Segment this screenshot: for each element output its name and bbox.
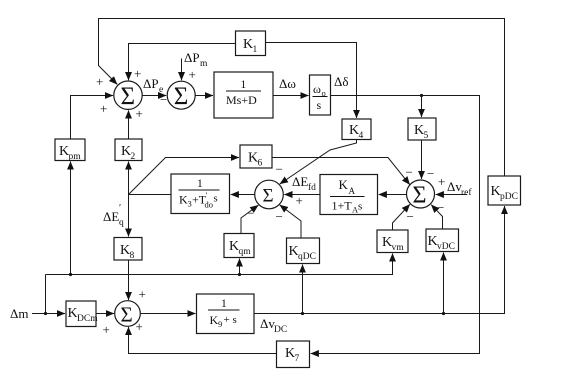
wire K4 output diagonal to S-field xyxy=(280,140,357,185)
wire delta-vDC bus to KpDC xyxy=(254,206,505,314)
wire K5 output to S-exc top xyxy=(421,140,423,179)
wire KvDC output to S-exc xyxy=(431,205,442,229)
wire vdc branch to KvDC xyxy=(443,253,445,314)
wire delta-m riser to bus xyxy=(45,275,47,314)
wire delta-delta branch to K5 xyxy=(421,96,423,118)
svg-text:K: K xyxy=(339,177,349,192)
svg-text:Δδ: Δδ xyxy=(334,74,349,89)
summing junction S-exc xyxy=(407,180,435,208)
wire delta-m bus to Kvm xyxy=(46,254,393,275)
node bus dot Kpm xyxy=(69,273,72,276)
svg-text:DC: DC xyxy=(274,325,287,335)
block K1 xyxy=(236,31,266,56)
svg-text:9: 9 xyxy=(218,319,222,329)
wire Kvm output to S-exc xyxy=(393,204,410,230)
block KpDC xyxy=(488,176,521,205)
summing junction S2 xyxy=(167,81,195,109)
summing junction S-field xyxy=(255,180,284,209)
summing junction S1 xyxy=(114,81,142,109)
svg-text:Δm: Δm xyxy=(10,306,28,321)
svg-text:Σ: Σ xyxy=(263,186,274,207)
svg-text:−: − xyxy=(276,162,283,177)
svg-text:vm: vm xyxy=(392,243,405,253)
svg-text:A: A xyxy=(349,186,356,196)
svg-text:′: ′ xyxy=(119,203,121,214)
svg-text:−: − xyxy=(247,206,254,221)
svg-text:ΔE: ΔE xyxy=(292,174,308,189)
block KA/(1+TAs) xyxy=(320,175,378,215)
wire S-exc output to KA block xyxy=(379,194,407,196)
wire S1 to S2 delta-Pe xyxy=(142,95,166,97)
svg-text:pm: pm xyxy=(69,152,82,162)
wire 1/(Ms+D) to w0/s delta-omega xyxy=(273,95,309,97)
svg-text:vDC: vDC xyxy=(437,242,455,252)
svg-text:4: 4 xyxy=(359,131,364,141)
svg-text:+: + xyxy=(136,106,143,121)
block 1/(Ms+D) xyxy=(214,72,273,118)
wire K7 output to S-dc bottom xyxy=(129,327,277,354)
svg-text:Σ: Σ xyxy=(174,83,189,110)
svg-text:1+T: 1+T xyxy=(332,199,353,213)
wire S-dc output to block 1/(K9+s) xyxy=(140,313,196,315)
svg-text:fd: fd xyxy=(308,182,316,193)
svg-text:pDC: pDC xyxy=(500,192,518,202)
node vdc bus dot KvDC xyxy=(442,312,445,315)
svg-text:Σ: Σ xyxy=(121,83,136,110)
svg-text:+: + xyxy=(134,66,141,81)
wire S-field output to block 1/(K3+Tdos) xyxy=(231,194,255,196)
block Kpm xyxy=(55,139,85,162)
wire K8 output down to S-dc top xyxy=(128,260,130,300)
wire KpDC output top feedback to summing junction S1 xyxy=(99,19,505,177)
svg-text:q: q xyxy=(119,218,124,228)
svg-text:ΔP: ΔP xyxy=(143,76,159,91)
block 1/(K3+Tdos) xyxy=(171,174,230,214)
svg-text:′: ′ xyxy=(206,190,208,200)
node vdc bus dot KqDC xyxy=(301,312,304,315)
svg-text:2: 2 xyxy=(131,152,136,162)
svg-text:qm: qm xyxy=(239,247,252,257)
svg-text:5: 5 xyxy=(424,131,429,141)
svg-text:m: m xyxy=(200,59,208,69)
wire Kqm output to S-field xyxy=(241,205,258,233)
wire node Eq down to K8 xyxy=(128,195,130,237)
wire node Eq up to K2 xyxy=(128,162,130,195)
svg-text:+ s: + s xyxy=(224,314,237,326)
wire delta-m input to KDCm xyxy=(32,313,65,315)
svg-text:6: 6 xyxy=(258,159,263,169)
svg-text:−: − xyxy=(437,200,444,215)
svg-text:ω: ω xyxy=(313,82,321,96)
block KvDC xyxy=(426,229,459,252)
svg-text:qDC: qDC xyxy=(298,252,316,262)
block K8 xyxy=(114,238,142,262)
block w0/s xyxy=(310,75,331,115)
wire delta-delta branch down to K4 xyxy=(356,96,358,119)
svg-text:s: s xyxy=(317,98,322,112)
svg-text:1: 1 xyxy=(253,45,258,55)
wire delta-vref input to S-exc xyxy=(436,194,467,196)
svg-text:Δω: Δω xyxy=(279,76,296,91)
svg-text:−: − xyxy=(276,209,283,224)
svg-text:+: + xyxy=(100,101,107,116)
wire vdc branch to KqDC xyxy=(302,265,304,314)
svg-text:s: s xyxy=(214,194,218,205)
svg-text:−: − xyxy=(406,165,413,180)
block K2 xyxy=(115,139,142,162)
svg-text:Σ: Σ xyxy=(121,303,133,327)
wire KA output delta-Efd to S-field xyxy=(284,194,320,196)
block KDCm xyxy=(66,301,98,327)
block K5 xyxy=(408,118,436,141)
svg-text:+: + xyxy=(136,319,143,334)
svg-text:Σ: Σ xyxy=(413,183,427,209)
svg-text:+: + xyxy=(96,74,103,89)
block KqDC xyxy=(287,238,320,264)
wire delta-Pm input to S2 top xyxy=(181,59,183,81)
wire S2 to block 1/(Ms+D) xyxy=(195,95,213,97)
svg-text:1: 1 xyxy=(241,79,247,91)
svg-text:ΔE: ΔE xyxy=(103,209,119,224)
wire K6 output diagonal to S-exc xyxy=(272,158,410,185)
wire Kpm input from delta-m bus xyxy=(70,162,72,275)
node bus dot Kqm xyxy=(238,273,241,276)
wire K2 output to S1 bottom xyxy=(128,110,130,139)
svg-text:Ms+D: Ms+D xyxy=(226,93,257,107)
wire block 1/(K3+Tdos) output to node Eq xyxy=(129,194,172,196)
svg-text:DCm: DCm xyxy=(77,314,98,324)
svg-text:ref: ref xyxy=(461,187,472,198)
svg-text:+: + xyxy=(139,287,146,302)
svg-text:1: 1 xyxy=(197,178,203,190)
svg-text:−: − xyxy=(427,166,434,181)
svg-text:s: s xyxy=(358,201,362,213)
wire Kpm output to S1 left xyxy=(71,96,114,140)
svg-text:8: 8 xyxy=(130,251,135,261)
block Kvm xyxy=(377,230,408,253)
node delta-delta branch dot xyxy=(420,94,423,97)
wire bus branch to Kqm xyxy=(239,259,241,275)
svg-text:−: − xyxy=(407,209,414,224)
node delta-m dot xyxy=(44,312,47,315)
block 1/(K9+s) xyxy=(197,294,255,334)
svg-text:+: + xyxy=(189,67,196,82)
svg-text:+: + xyxy=(103,322,110,337)
block Kqm xyxy=(224,234,254,258)
wire K1 output to S1 top xyxy=(129,44,236,81)
wire delta-delta branch up to K1 input xyxy=(266,43,357,96)
summing junction S-dc xyxy=(115,301,141,327)
block K4 xyxy=(342,119,371,141)
svg-text:1: 1 xyxy=(221,298,227,310)
wire node Eq to K6 input xyxy=(129,158,240,195)
svg-text:do: do xyxy=(205,200,214,210)
svg-text:ΔP: ΔP xyxy=(184,50,200,65)
svg-text:7: 7 xyxy=(295,354,300,364)
svg-text:−: − xyxy=(160,92,167,107)
wire delta-delta main run and down right side to K7 xyxy=(311,96,480,354)
wire KDCm output to S-dc xyxy=(96,313,114,315)
block K7 xyxy=(277,341,310,368)
svg-text:+: + xyxy=(438,174,445,189)
block K6 xyxy=(240,145,272,169)
svg-text:+: + xyxy=(296,193,303,208)
wire KqDC output to S-field xyxy=(280,205,301,238)
